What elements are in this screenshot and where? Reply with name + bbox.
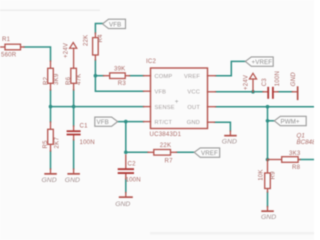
- svg-text:RT/CT: RT/CT: [155, 120, 173, 126]
- svg-text:R3: R3: [118, 80, 127, 87]
- svg-text:BC848: BC848: [297, 139, 315, 146]
- svg-text:R7: R7: [165, 158, 174, 165]
- svg-text:3K9: 3K9: [53, 73, 60, 85]
- svg-text:OUT: OUT: [187, 105, 200, 111]
- svg-text:C1: C1: [80, 122, 89, 129]
- svg-text:GND: GND: [42, 177, 57, 184]
- svg-text:22K: 22K: [160, 142, 171, 149]
- svg-text:R8: R8: [292, 164, 301, 171]
- svg-text:R1: R1: [2, 36, 11, 43]
- svg-text:22K: 22K: [83, 35, 90, 46]
- svg-text:COMP: COMP: [155, 74, 173, 80]
- svg-text:+: +: [175, 98, 179, 105]
- svg-text:GND: GND: [222, 139, 237, 146]
- svg-text:VREF: VREF: [201, 150, 218, 157]
- svg-text:GND: GND: [187, 120, 200, 126]
- svg-text:10K: 10K: [258, 169, 265, 180]
- svg-text:VFB: VFB: [155, 89, 167, 95]
- svg-text:VREF: VREF: [184, 74, 200, 80]
- svg-text:SENSE: SENSE: [155, 105, 175, 111]
- svg-text:R4: R4: [97, 34, 104, 43]
- svg-text:+24V: +24V: [243, 74, 250, 90]
- svg-text:UC3843D1: UC3843D1: [150, 131, 182, 138]
- svg-text:VFB: VFB: [97, 119, 109, 126]
- svg-text:C2: C2: [128, 161, 137, 168]
- svg-text:VFB: VFB: [109, 21, 121, 28]
- svg-text:+VREF: +VREF: [252, 59, 273, 66]
- svg-text:47K: 47K: [75, 74, 82, 85]
- svg-text:GND: GND: [290, 72, 297, 87]
- svg-text:100N: 100N: [274, 71, 281, 86]
- svg-text:VCC: VCC: [187, 89, 200, 95]
- svg-text:3K3: 3K3: [289, 150, 301, 157]
- svg-text:R6: R6: [65, 76, 72, 85]
- svg-text:IC2: IC2: [146, 58, 156, 65]
- svg-text:100N: 100N: [126, 176, 141, 183]
- svg-text:560R: 560R: [1, 52, 17, 59]
- svg-text:C3: C3: [261, 78, 268, 87]
- svg-text:39K: 39K: [114, 66, 125, 73]
- svg-text:100N: 100N: [80, 139, 95, 146]
- svg-text:+24V: +24V: [62, 42, 69, 58]
- svg-text:GND: GND: [261, 214, 276, 221]
- svg-text:R9: R9: [269, 171, 276, 180]
- svg-text:GND: GND: [115, 201, 130, 208]
- svg-text:2K7: 2K7: [54, 137, 61, 149]
- svg-text:PWM+: PWM+: [281, 118, 300, 125]
- svg-text:R2: R2: [42, 76, 49, 85]
- svg-text:R5: R5: [42, 140, 49, 149]
- svg-text:GND: GND: [65, 177, 80, 184]
